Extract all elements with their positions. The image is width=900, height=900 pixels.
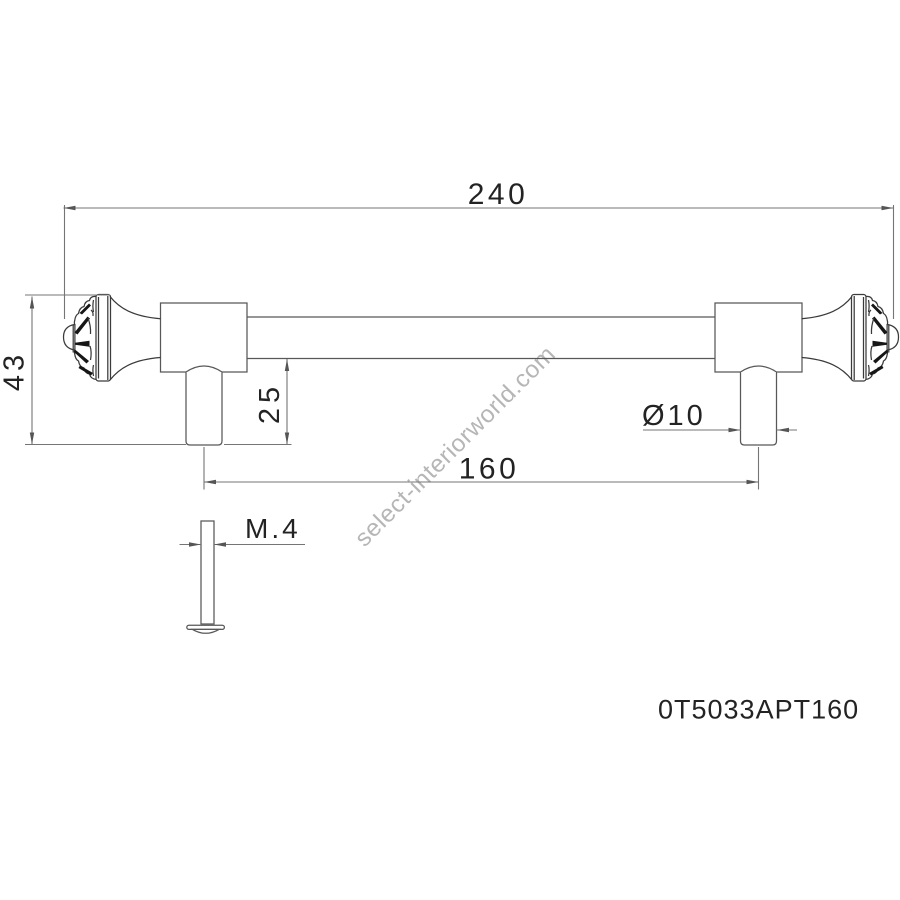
dimension M4 line: [180, 544, 306, 546]
svg-text:160: 160: [459, 453, 520, 486]
finial crown outline: [74, 296, 96, 324]
dimension 43 arrows: [30, 297, 34, 445]
dimension diameter 10 line: [643, 429, 797, 431]
svg-text:0T5033APT160: 0T5033APT160: [658, 695, 859, 725]
finial dome: [64, 325, 75, 351]
dimension diameter 10 arrows: [729, 428, 790, 432]
svg-text:240: 240: [468, 178, 529, 211]
right post: [741, 372, 777, 445]
dimension 240 arrows: [64, 206, 894, 210]
right finial (mirror): [802, 295, 899, 382]
finial flare: [110, 297, 161, 381]
screw M4 shaft: [201, 521, 214, 624]
screw M4 head: [187, 625, 225, 629]
dimension 240 line: [64, 205, 894, 319]
left mount block: [161, 303, 248, 372]
dimension M4 arrows: [189, 542, 226, 546]
dimension 160 line: [204, 447, 759, 490]
svg-text:M.4: M.4: [245, 513, 301, 544]
finial petal edges: [88, 300, 94, 376]
svg-text:43: 43: [0, 351, 31, 391]
svg-text:Ø10: Ø10: [642, 400, 706, 432]
handle bar: [247, 317, 715, 359]
dimension 160 arrows: [204, 480, 759, 484]
left post: [186, 372, 222, 445]
right mount block: [715, 303, 802, 372]
finial petals: [74, 304, 93, 376]
dimension 25 arrows: [285, 359, 289, 445]
dimension 25 line: [224, 359, 292, 445]
dimension 43 line: [25, 295, 186, 445]
svg-text:25: 25: [254, 382, 286, 424]
left finial: [64, 295, 161, 382]
finial plate: [96, 295, 111, 382]
